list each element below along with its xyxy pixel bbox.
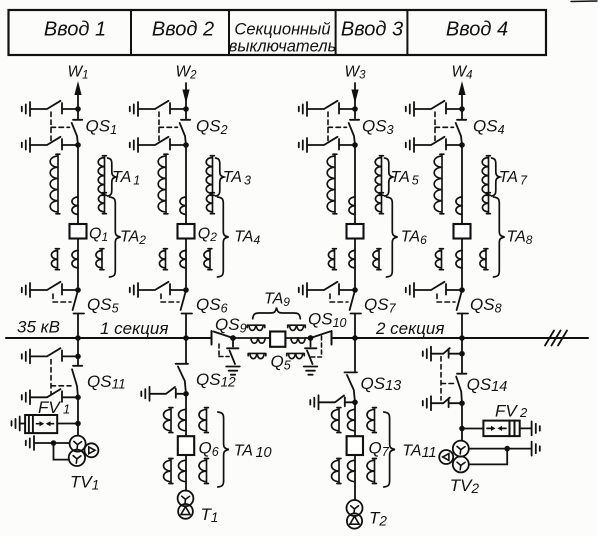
svg-text:2: 2 [519, 405, 528, 420]
svg-text:35 кВ: 35 кВ [17, 318, 60, 337]
svg-text:TA11: TA11 [402, 443, 436, 462]
svg-text:2 секция: 2 секция [375, 319, 444, 338]
svg-text:Секционный: Секционный [234, 21, 330, 39]
svg-text:Ввод 1: Ввод 1 [44, 19, 106, 41]
svg-text:FV: FV [495, 402, 518, 421]
svg-text:Ввод 2: Ввод 2 [152, 19, 214, 41]
svg-text:FV: FV [38, 398, 61, 417]
svg-text:Ввод 3: Ввод 3 [341, 19, 403, 41]
svg-text:1 секция: 1 секция [100, 319, 168, 338]
svg-text:Ввод 4: Ввод 4 [446, 19, 508, 41]
svg-text:TA10: TA10 [234, 443, 272, 462]
svg-text:1: 1 [63, 402, 70, 417]
svg-text:выключатель: выключатель [229, 38, 337, 56]
